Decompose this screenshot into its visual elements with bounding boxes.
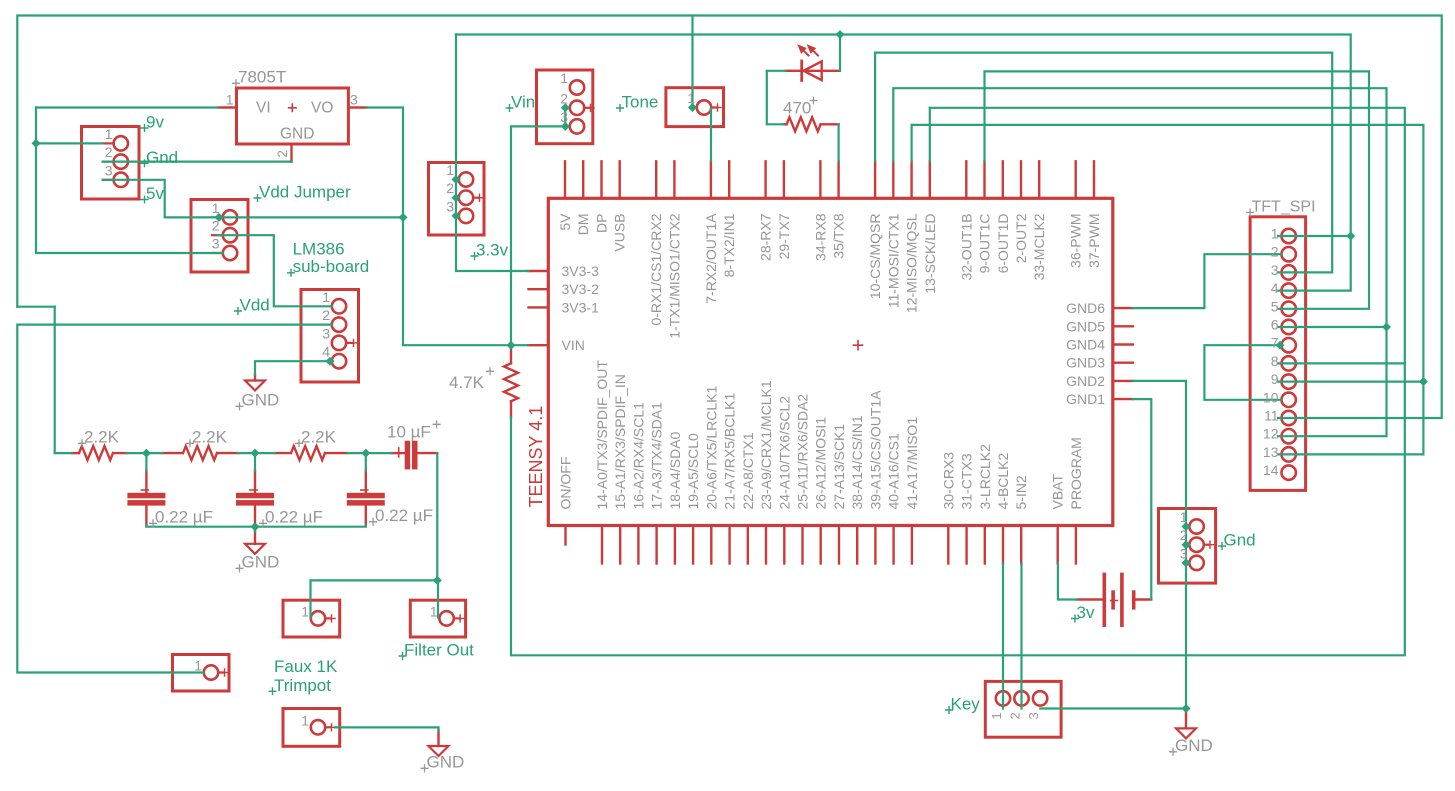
svg-text:4: 4 (322, 344, 330, 360)
svg-text:3v: 3v (1077, 603, 1095, 622)
svg-text:2-OUT2: 2-OUT2 (1013, 213, 1029, 263)
svg-text:sub-board: sub-board (293, 257, 370, 276)
svg-text:16-A2/RX4/SCL1: 16-A2/RX4/SCL1 (630, 402, 646, 510)
svg-text:VO: VO (311, 100, 333, 117)
svg-text:11: 11 (1264, 408, 1279, 424)
svg-text:1: 1 (301, 712, 309, 728)
svg-text:2: 2 (560, 90, 568, 106)
svg-text:1-TX1/MISO1/CTX2: 1-TX1/MISO1/CTX2 (666, 213, 682, 338)
svg-text:17-A3/TX4/SDA1: 17-A3/TX4/SDA1 (649, 402, 665, 510)
svg-text:3: 3 (446, 198, 454, 214)
svg-text:1: 1 (194, 658, 202, 674)
svg-text:Gnd: Gnd (1224, 531, 1256, 550)
svg-text:14-A0/TX3/SPDIF_OUT: 14-A0/TX3/SPDIF_OUT (594, 360, 610, 510)
svg-text:31-CTX3: 31-CTX3 (959, 453, 975, 509)
svg-text:2: 2 (1008, 712, 1023, 719)
svg-text:3: 3 (105, 162, 113, 178)
svg-text:13-SCK/LED: 13-SCK/LED (922, 214, 938, 294)
svg-text:9: 9 (1271, 371, 1279, 387)
svg-text:Vdd Jumper: Vdd Jumper (259, 183, 351, 202)
svg-text:GND: GND (280, 126, 314, 143)
svg-text:1: 1 (212, 200, 220, 216)
svg-text:2: 2 (1271, 244, 1279, 260)
svg-text:41-A17/MISO1: 41-A17/MISO1 (904, 417, 920, 510)
svg-text:22-A8/CTX1: 22-A8/CTX1 (740, 432, 756, 509)
svg-text:29-TX7: 29-TX7 (776, 213, 792, 259)
svg-text:1: 1 (322, 289, 330, 305)
svg-text:TFT_SPI: TFT_SPI (1252, 199, 1316, 216)
svg-text:5: 5 (1271, 298, 1279, 314)
svg-text:ON/OFF: ON/OFF (558, 457, 574, 510)
svg-text:4-BCLK2: 4-BCLK2 (995, 452, 1011, 509)
svg-text:3.3v: 3.3v (476, 241, 509, 260)
svg-text:1: 1 (1180, 509, 1188, 525)
svg-text:3V3-1: 3V3-1 (562, 299, 600, 315)
svg-text:37-PWM: 37-PWM (1086, 214, 1102, 268)
svg-text:1: 1 (446, 162, 454, 178)
svg-text:GND: GND (242, 391, 280, 410)
svg-text:2.2K: 2.2K (84, 428, 120, 447)
svg-text:1: 1 (1271, 226, 1279, 242)
svg-text:2.2K: 2.2K (192, 428, 228, 447)
svg-text:1: 1 (226, 92, 234, 108)
svg-text:34-RX8: 34-RX8 (812, 213, 828, 261)
svg-text:2: 2 (1180, 527, 1188, 543)
svg-text:Faux 1K: Faux 1K (274, 657, 338, 676)
svg-text:19-A5/SCL0: 19-A5/SCL0 (685, 433, 701, 509)
svg-text:5-IN2: 5-IN2 (1013, 475, 1029, 509)
svg-text:Gnd: Gnd (146, 148, 178, 167)
svg-text:1: 1 (989, 712, 1004, 719)
svg-text:11-MOSI/CTX1: 11-MOSI/CTX1 (885, 213, 901, 308)
svg-text:3: 3 (212, 236, 220, 252)
svg-text:3: 3 (1026, 712, 1041, 719)
svg-text:7805T: 7805T (238, 68, 286, 87)
svg-text:2.2K: 2.2K (301, 428, 337, 447)
svg-text:1: 1 (301, 603, 309, 619)
svg-text:Vdd: Vdd (240, 296, 270, 315)
svg-text:GND: GND (427, 753, 465, 772)
svg-text:2: 2 (322, 307, 330, 323)
svg-text:VBAT: VBAT (1050, 474, 1066, 510)
svg-text:6-OUT1D: 6-OUT1D (995, 214, 1011, 274)
svg-text:LM386: LM386 (293, 240, 345, 259)
svg-text:28-RX7: 28-RX7 (758, 213, 774, 261)
svg-text:18-A4/SDA0: 18-A4/SDA0 (667, 431, 683, 509)
svg-text:3: 3 (350, 92, 358, 108)
svg-text:0-RX1/CS1/CRX2: 0-RX1/CS1/CRX2 (648, 213, 664, 325)
svg-text:14: 14 (1263, 462, 1279, 478)
svg-text:8-TX2/IN1: 8-TX2/IN1 (721, 213, 737, 277)
svg-text:8: 8 (1271, 353, 1279, 369)
svg-text:24-A10/TX6/SCL2: 24-A10/TX6/SCL2 (776, 396, 792, 510)
svg-text:0.22 µF: 0.22 µF (265, 508, 323, 527)
svg-text:3: 3 (1180, 545, 1188, 561)
svg-text:2: 2 (274, 150, 290, 158)
svg-text:VUSB: VUSB (612, 214, 628, 252)
svg-text:GND1: GND1 (1066, 391, 1105, 407)
svg-text:13: 13 (1263, 444, 1279, 460)
svg-text:3V3-2: 3V3-2 (562, 281, 600, 297)
svg-text:4.7K: 4.7K (449, 373, 485, 392)
svg-text:DM: DM (575, 214, 591, 236)
svg-text:6: 6 (1271, 317, 1279, 333)
svg-text:9v: 9v (146, 113, 164, 132)
svg-text:40-A16/CS1: 40-A16/CS1 (886, 433, 902, 509)
svg-text:GND5: GND5 (1066, 318, 1105, 334)
svg-text:36-PWM: 36-PWM (1068, 214, 1084, 268)
svg-text:5V: 5V (557, 213, 573, 231)
svg-text:10: 10 (1263, 389, 1279, 405)
svg-text:9-OUT1C: 9-OUT1C (977, 214, 993, 274)
svg-text:1: 1 (560, 70, 568, 86)
svg-text:10 µF: 10 µF (387, 423, 431, 442)
svg-text:3: 3 (322, 325, 330, 341)
svg-text:7: 7 (1271, 335, 1279, 351)
svg-text:0.22 µF: 0.22 µF (155, 508, 213, 527)
svg-text:10-CS/MQSR: 10-CS/MQSR (867, 214, 883, 300)
svg-text:12: 12 (1263, 426, 1279, 442)
svg-text:GND: GND (1175, 736, 1213, 755)
svg-text:3V3-3: 3V3-3 (562, 263, 600, 279)
svg-text:4: 4 (1271, 280, 1279, 296)
svg-text:1: 1 (430, 603, 438, 619)
svg-text:TEENSY 4.1: TEENSY 4.1 (526, 406, 546, 508)
svg-text:GND: GND (242, 553, 280, 572)
svg-text:23-A9/CRX1/MCLK1: 23-A9/CRX1/MCLK1 (758, 380, 774, 509)
svg-text:VIN: VIN (562, 337, 585, 353)
svg-text:3: 3 (1271, 262, 1279, 278)
svg-text:GND4: GND4 (1066, 337, 1105, 353)
svg-text:32-OUT1B: 32-OUT1B (958, 214, 974, 281)
svg-text:15-A1/RX3/SPDIF_IN: 15-A1/RX3/SPDIF_IN (612, 374, 628, 509)
svg-text:20-A6/TX5/LRCLK1: 20-A6/TX5/LRCLK1 (703, 386, 719, 510)
svg-text:12-MISO/MQSL: 12-MISO/MQSL (904, 213, 920, 313)
svg-text:3-LRCLK2: 3-LRCLK2 (977, 444, 993, 510)
svg-text:PROGRAM: PROGRAM (1068, 437, 1084, 509)
svg-text:VI: VI (256, 100, 271, 117)
svg-text:1: 1 (687, 90, 695, 106)
svg-text:1: 1 (105, 126, 113, 142)
svg-text:21-A7/RX5/BCLK1: 21-A7/RX5/BCLK1 (722, 393, 738, 510)
svg-text:2: 2 (105, 144, 113, 160)
svg-text:25-A11/RX6/SDA2: 25-A11/RX6/SDA2 (795, 394, 811, 510)
svg-text:38-A14/CS/IN1: 38-A14/CS/IN1 (849, 415, 865, 509)
svg-text:470: 470 (783, 99, 811, 118)
svg-text:Filter Out: Filter Out (404, 641, 474, 660)
svg-text:GND6: GND6 (1066, 300, 1105, 316)
svg-text:2: 2 (212, 218, 220, 234)
svg-text:GND2: GND2 (1066, 373, 1105, 389)
svg-text:7-RX2/OUT1A: 7-RX2/OUT1A (703, 213, 719, 304)
svg-text:Tone: Tone (622, 93, 659, 112)
svg-text:27-A13/SCK1: 27-A13/SCK1 (831, 424, 847, 510)
svg-text:35/TX8: 35/TX8 (831, 213, 847, 258)
svg-text:2: 2 (446, 180, 454, 196)
svg-text:DP: DP (594, 214, 610, 233)
svg-text:GND3: GND3 (1066, 355, 1105, 371)
svg-text:39-A15/CS/OUT1A: 39-A15/CS/OUT1A (867, 390, 883, 510)
svg-text:Key: Key (951, 695, 981, 714)
svg-text:33-MCLK2: 33-MCLK2 (1031, 213, 1047, 280)
svg-text:5v: 5v (146, 184, 164, 203)
svg-text:3: 3 (560, 109, 568, 125)
svg-text:0.22 µF: 0.22 µF (375, 506, 433, 525)
svg-text:Trimpot: Trimpot (274, 676, 331, 695)
svg-text:30-CRX3: 30-CRX3 (940, 452, 956, 510)
svg-text:26-A12/MOSI1: 26-A12/MOSI1 (813, 417, 829, 510)
svg-text:Vin: Vin (511, 93, 535, 112)
